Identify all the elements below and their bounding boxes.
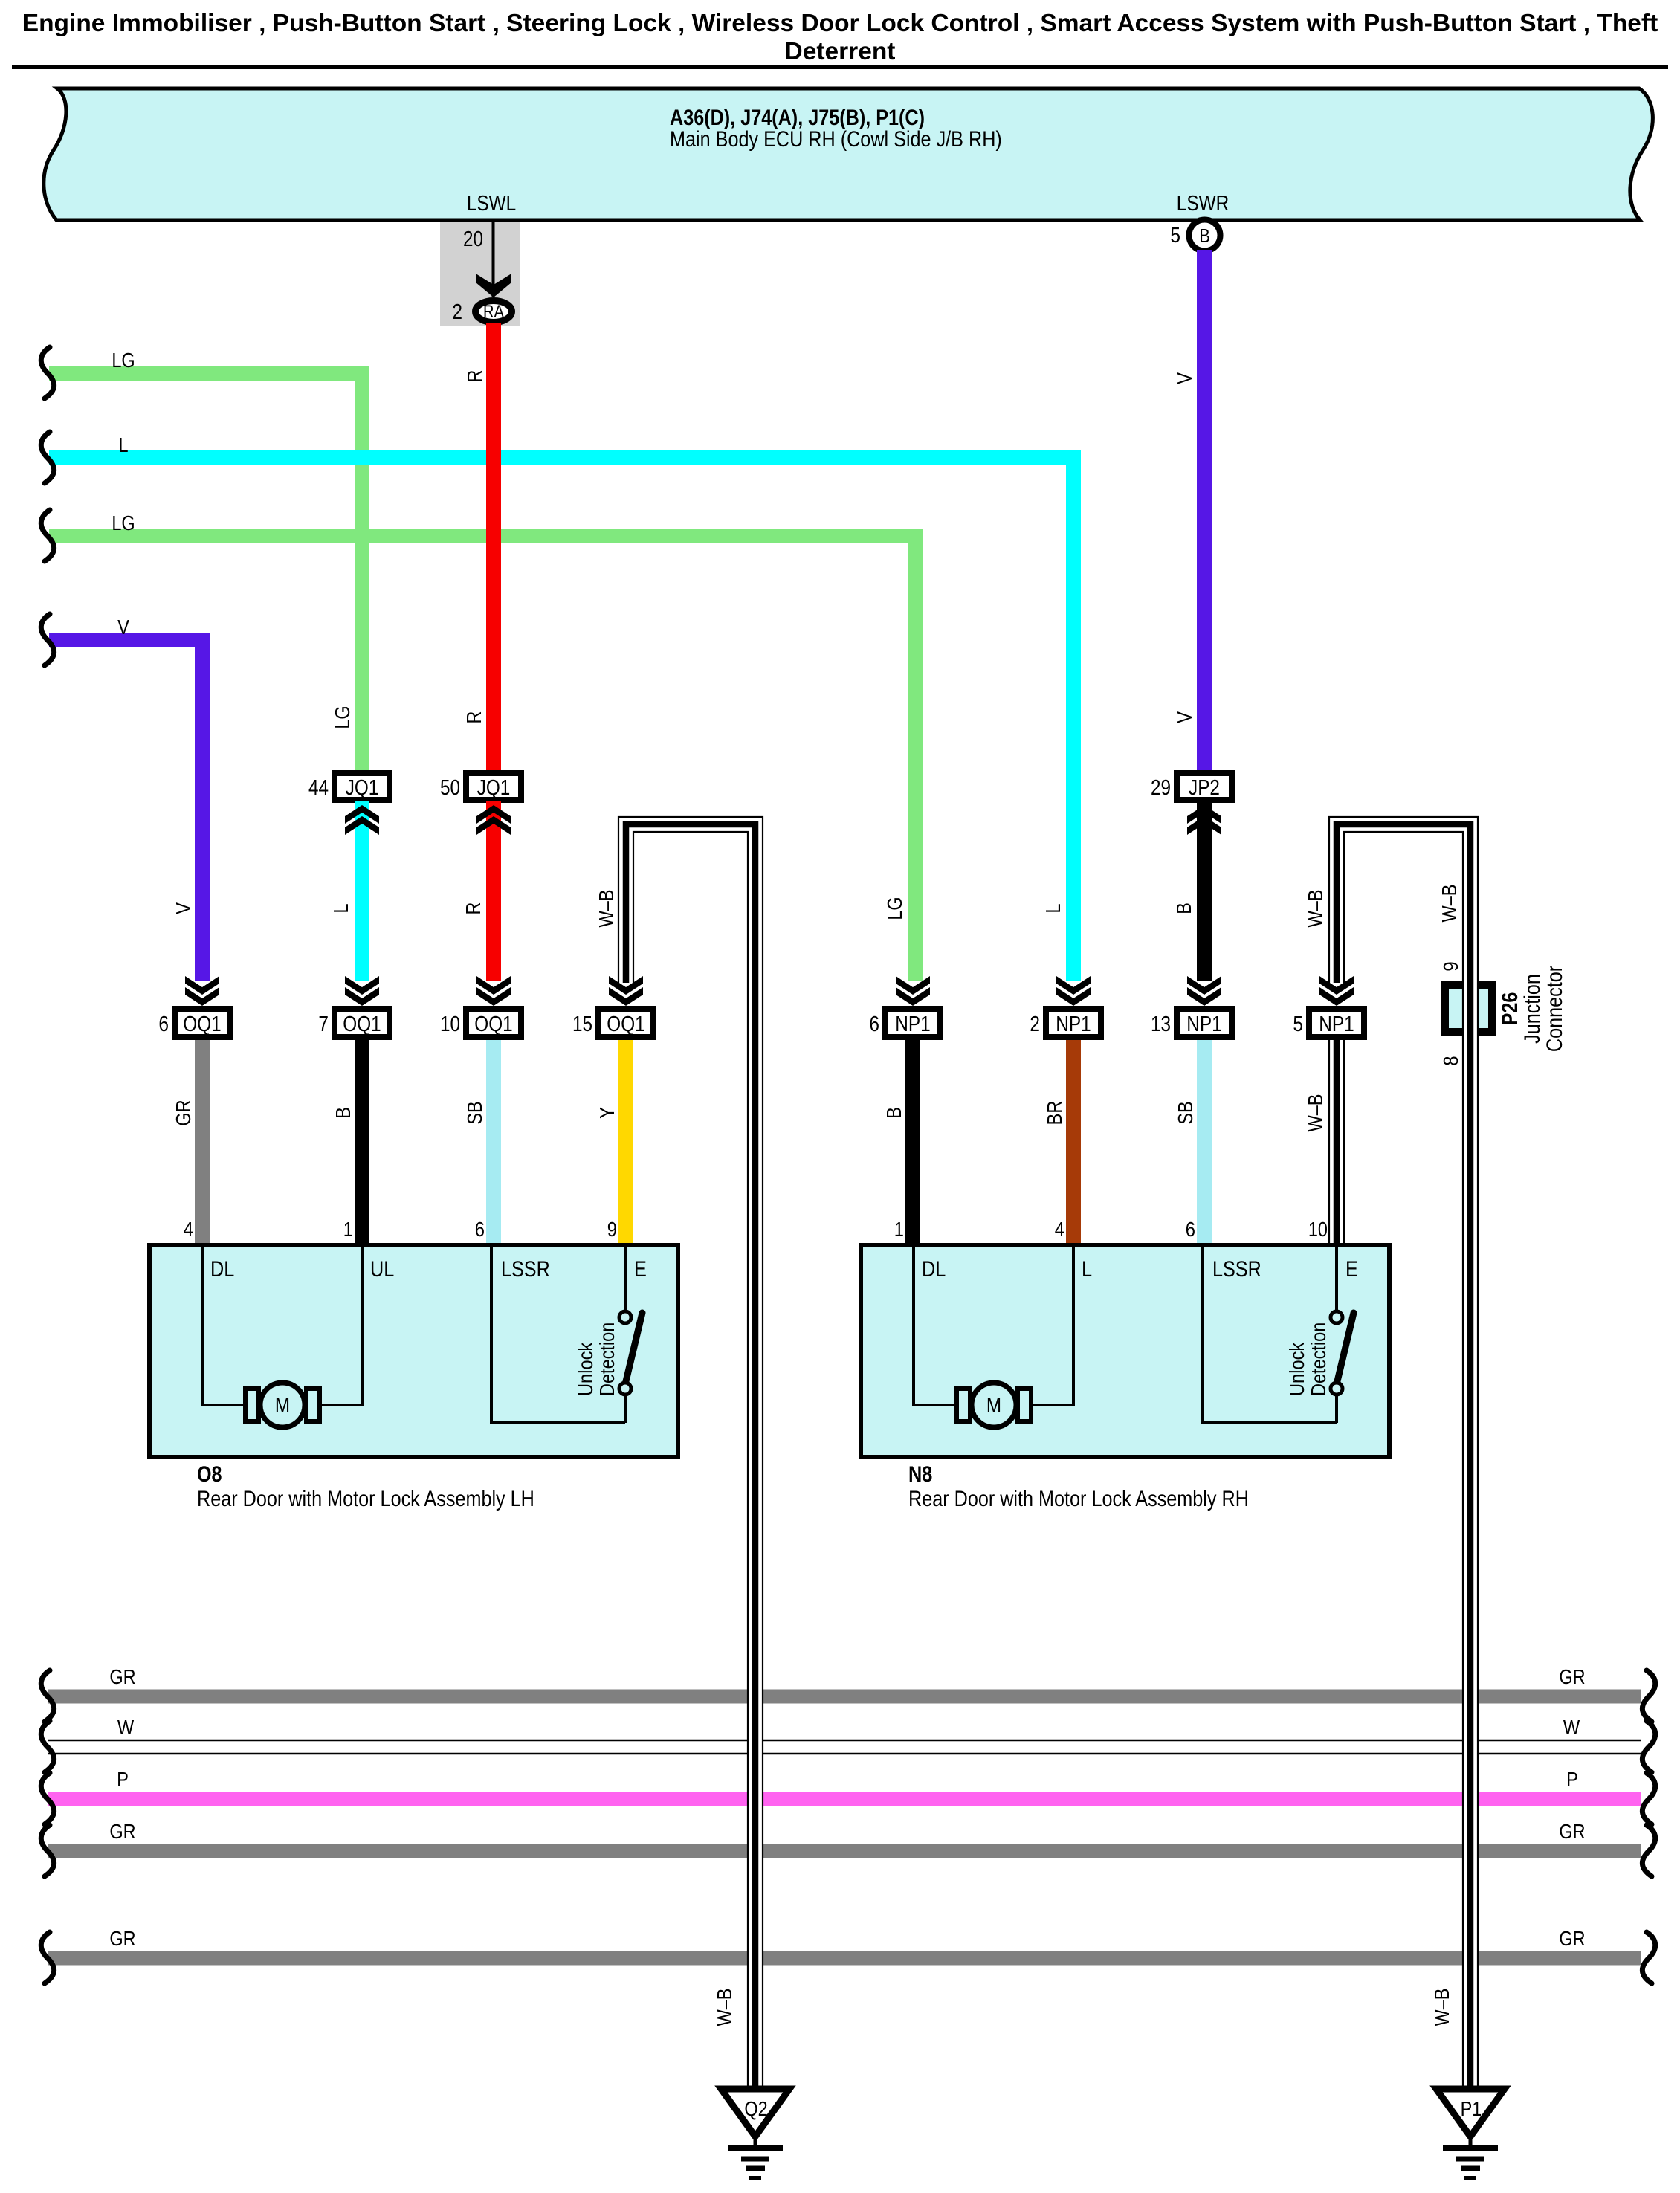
- svg-text:GR: GR: [1559, 1820, 1585, 1843]
- svg-text:R: R: [463, 370, 486, 383]
- shaded region at LSWL output: [440, 222, 520, 326]
- arrow below JP2: [1187, 816, 1221, 835]
- svg-text:W–B: W–B: [1304, 1094, 1327, 1132]
- wire B: [905, 1040, 920, 1247]
- N8 unlock detection switch: [1335, 1395, 1338, 1423]
- svg-text:Connector: Connector: [1542, 966, 1567, 1052]
- motor M: [260, 1383, 305, 1427]
- svg-text:7: 7: [318, 1012, 329, 1036]
- svg-text:29: 29: [1151, 776, 1171, 800]
- svg-text:LG: LG: [112, 511, 135, 534]
- svg-text:R: R: [462, 711, 485, 724]
- break symbol: [1642, 1932, 1655, 1983]
- svg-text:JQ1: JQ1: [346, 776, 379, 800]
- wire R (RA to JQ1 50): [486, 323, 501, 773]
- connector JP2 pin 29: [1177, 773, 1232, 800]
- svg-text:10: 10: [1308, 1218, 1328, 1241]
- connector OQ1 pin 15: [598, 1009, 653, 1037]
- arrow into OQ1 7: [345, 976, 379, 995]
- N8 DL branch: [914, 1245, 958, 1405]
- break symbol: [41, 510, 54, 561]
- break symbol: [1642, 1670, 1655, 1722]
- svg-text:50: 50: [440, 776, 460, 800]
- connector OQ1 pin 10: [466, 1009, 521, 1037]
- svg-text:9: 9: [1439, 961, 1462, 971]
- svg-text:P: P: [117, 1768, 129, 1791]
- svg-text:4: 4: [1055, 1218, 1064, 1241]
- svg-text:13: 13: [1151, 1012, 1171, 1036]
- svg-text:Detection: Detection: [595, 1322, 618, 1396]
- svg-text:W–B: W–B: [713, 1989, 736, 2026]
- svg-text:4: 4: [184, 1218, 193, 1241]
- svg-text:M: M: [986, 1394, 1001, 1418]
- svg-text:OQ1: OQ1: [183, 1012, 221, 1036]
- svg-text:L: L: [1041, 903, 1064, 913]
- break symbol: [41, 614, 54, 665]
- svg-text:UL: UL: [370, 1257, 394, 1282]
- arrow into NP1 13: [1187, 976, 1221, 995]
- wire L (JQ1 44 to OQ1 7): [355, 801, 369, 981]
- break symbol: [1642, 1825, 1655, 1876]
- O8 E branch: [624, 1245, 627, 1311]
- wire LG (to JQ1 44): [49, 373, 362, 773]
- svg-text:8: 8: [1439, 1056, 1462, 1065]
- svg-text:W–B: W–B: [1430, 1989, 1453, 2026]
- svg-text:LSSR: LSSR: [1212, 1257, 1261, 1282]
- svg-text:SB: SB: [1174, 1101, 1197, 1124]
- wire W-B (NP1 5 to ground P1 via P26): [1337, 824, 1470, 2089]
- N8 LSSR branch: [1203, 1245, 1337, 1423]
- break symbol: [1642, 1721, 1655, 1772]
- door lock assembly N8: [861, 1245, 1389, 1457]
- svg-text:LSSR: LSSR: [501, 1257, 550, 1282]
- svg-text:GR: GR: [1559, 1927, 1585, 1950]
- connector NP1 pin 13: [1177, 1009, 1232, 1037]
- wire SB: [1197, 1040, 1212, 1247]
- wire BR: [1066, 1040, 1081, 1247]
- ground P1: [1436, 2089, 1505, 2137]
- svg-text:LG: LG: [883, 897, 906, 920]
- svg-text:B: B: [882, 1107, 905, 1119]
- break symbol: [41, 347, 54, 398]
- arrow into OQ1 15: [609, 976, 643, 995]
- svg-text:P26: P26: [1498, 992, 1522, 1026]
- arrow into NP1 6: [896, 976, 930, 995]
- ECU pin 5 splice B: [1189, 220, 1221, 251]
- svg-text:B: B: [1172, 902, 1195, 914]
- svg-text:V: V: [1173, 372, 1196, 384]
- connector JQ1 pin 50: [466, 773, 521, 800]
- svg-text:GR: GR: [109, 1820, 135, 1843]
- svg-text:GR: GR: [172, 1099, 195, 1125]
- connector NP1 pin 5: [1309, 1009, 1364, 1037]
- svg-text:6: 6: [869, 1012, 879, 1036]
- svg-text:9: 9: [607, 1218, 617, 1241]
- arrow into OQ1 10: [476, 976, 511, 995]
- wire Y: [618, 1040, 633, 1247]
- connector NP1 pin 6: [885, 1009, 940, 1037]
- arrow into OQ1 6: [185, 976, 219, 995]
- arrow below JQ1 44: [345, 816, 379, 835]
- svg-text:Unlock: Unlock: [574, 1342, 597, 1396]
- svg-text:E: E: [634, 1257, 647, 1282]
- svg-text:6: 6: [158, 1012, 169, 1036]
- break symbol: [41, 1932, 54, 1983]
- motor M: [972, 1383, 1016, 1427]
- svg-text:10: 10: [440, 1012, 460, 1036]
- svg-text:Engine Immobiliser , Push-Butt: Engine Immobiliser , Push-Button Start ,…: [22, 10, 1658, 37]
- svg-text:6: 6: [475, 1218, 485, 1241]
- svg-text:LG: LG: [112, 349, 135, 372]
- svg-text:Unlock: Unlock: [1285, 1342, 1308, 1396]
- svg-text:44: 44: [308, 776, 329, 800]
- svg-text:Q2: Q2: [744, 2097, 767, 2120]
- break symbol: [41, 1773, 54, 1824]
- svg-text:W: W: [117, 1716, 135, 1739]
- svg-text:P: P: [1566, 1768, 1578, 1791]
- svg-text:GR: GR: [1559, 1665, 1585, 1688]
- wire R (JQ1 50 to OQ1 10): [486, 801, 501, 981]
- svg-text:Junction: Junction: [1520, 974, 1545, 1044]
- wire GR: [48, 1690, 1641, 1704]
- svg-text:OQ1: OQ1: [474, 1012, 512, 1036]
- svg-text:1: 1: [343, 1218, 353, 1241]
- arrow below JQ1 50: [476, 816, 511, 835]
- svg-text:JP2: JP2: [1189, 776, 1220, 800]
- wire B: [355, 1040, 369, 1247]
- svg-text:5: 5: [1170, 224, 1180, 248]
- svg-text:O8: O8: [197, 1462, 222, 1487]
- svg-text:P1: P1: [1461, 2097, 1482, 2120]
- wire from LSWL pin 20 with arrow: [492, 220, 495, 297]
- wire GR: [48, 1951, 1641, 1966]
- connector NP1 pin 2: [1046, 1009, 1101, 1037]
- arrow into NP1 2: [1056, 976, 1091, 995]
- svg-text:R: R: [462, 902, 485, 915]
- junction connector P26: [1445, 985, 1492, 1032]
- O8 unlock detection switch: [624, 1395, 627, 1423]
- door lock assembly O8: [149, 1245, 678, 1457]
- wire L (to NP1 2): [49, 458, 1073, 981]
- svg-text:20: 20: [463, 227, 483, 251]
- O8 DL branch: [202, 1245, 247, 1405]
- svg-text:LSWL: LSWL: [467, 192, 516, 216]
- svg-text:V: V: [117, 616, 129, 639]
- svg-text:Rear Door with Motor Lock Asse: Rear Door with Motor Lock Assembly LH: [197, 1487, 534, 1511]
- wire W-B (OQ1 15 to ground Q2): [626, 824, 755, 2089]
- svg-text:B: B: [332, 1107, 355, 1119]
- svg-text:E: E: [1345, 1257, 1358, 1282]
- svg-text:W: W: [1563, 1716, 1580, 1739]
- wire V (B splice to JP2 29): [1197, 250, 1212, 773]
- svg-text:2: 2: [1030, 1012, 1040, 1036]
- svg-text:JQ1: JQ1: [477, 776, 511, 800]
- splice RA: [476, 301, 512, 323]
- svg-text:6: 6: [1186, 1218, 1195, 1241]
- break symbol: [41, 1721, 54, 1772]
- svg-text:Main Body ECU RH (Cowl Side J/: Main Body ECU RH (Cowl Side J/B RH): [670, 127, 1002, 152]
- svg-text:V: V: [1173, 711, 1196, 723]
- svg-text:L: L: [1082, 1257, 1092, 1282]
- svg-text:NP1: NP1: [1056, 1012, 1091, 1036]
- svg-text:BR: BR: [1043, 1101, 1066, 1125]
- svg-text:LSWR: LSWR: [1177, 192, 1229, 216]
- svg-text:RA: RA: [483, 302, 504, 322]
- ground Q2: [721, 2089, 789, 2137]
- wire GR: [48, 1844, 1641, 1858]
- svg-text:2: 2: [452, 300, 462, 324]
- wire P: [48, 1792, 1641, 1806]
- svg-text:NP1: NP1: [895, 1012, 931, 1036]
- svg-text:NP1: NP1: [1186, 1012, 1222, 1036]
- svg-text:M: M: [275, 1394, 290, 1418]
- N8 E branch: [1335, 1245, 1338, 1311]
- wire B (JP2 to NP1 13): [1197, 801, 1212, 981]
- wire W: [48, 1740, 1641, 1742]
- O8 LSSR branch: [491, 1245, 625, 1423]
- svg-text:N8: N8: [908, 1462, 932, 1487]
- svg-text:V: V: [172, 902, 195, 914]
- N8 UL branch: [1030, 1245, 1073, 1405]
- break symbol: [41, 432, 54, 483]
- svg-text:OQ1: OQ1: [343, 1012, 381, 1036]
- svg-text:GR: GR: [109, 1927, 135, 1950]
- svg-text:DL: DL: [922, 1257, 946, 1282]
- connector JQ1 pin 44: [335, 773, 390, 800]
- ECU Main Body ECU RH (Cowl Side J/B RH): [44, 88, 1653, 220]
- svg-text:B: B: [1199, 225, 1210, 247]
- wire SB: [486, 1040, 501, 1247]
- svg-text:SB: SB: [463, 1101, 486, 1124]
- svg-text:1: 1: [894, 1218, 904, 1241]
- wire GR: [195, 1040, 210, 1247]
- svg-text:Deterrent: Deterrent: [785, 38, 896, 65]
- connector OQ1 pin 7: [335, 1009, 390, 1037]
- break symbol: [41, 1670, 54, 1722]
- connector OQ1 pin 6: [175, 1009, 230, 1037]
- svg-text:Detection: Detection: [1307, 1322, 1330, 1396]
- svg-text:Rear Door with Motor Lock Asse: Rear Door with Motor Lock Assembly RH: [908, 1487, 1249, 1511]
- svg-text:15: 15: [572, 1012, 592, 1036]
- svg-text:L: L: [118, 433, 128, 456]
- O8 UL branch: [318, 1245, 362, 1405]
- arrow into NP1 5: [1319, 976, 1354, 995]
- svg-text:DL: DL: [210, 1257, 234, 1282]
- svg-text:W–B: W–B: [1304, 890, 1327, 928]
- svg-text:OQ1: OQ1: [607, 1012, 644, 1036]
- svg-text:L: L: [329, 903, 352, 913]
- svg-text:NP1: NP1: [1319, 1012, 1354, 1036]
- wire LG (to NP1 6): [49, 536, 915, 981]
- svg-text:Y: Y: [595, 1107, 618, 1119]
- svg-text:GR: GR: [109, 1665, 135, 1688]
- svg-text:5: 5: [1293, 1012, 1303, 1036]
- break symbol: [41, 1825, 54, 1876]
- svg-text:W–B: W–B: [1438, 885, 1461, 923]
- wire V (to OQ1 6): [49, 640, 202, 981]
- svg-text:LG: LG: [331, 705, 354, 729]
- wire W-B (NP1 5 to N8 pin 10): [1328, 1040, 1345, 1247]
- title rule: [12, 65, 1668, 69]
- svg-text:W–B: W–B: [595, 890, 618, 928]
- break symbol: [1642, 1773, 1655, 1824]
